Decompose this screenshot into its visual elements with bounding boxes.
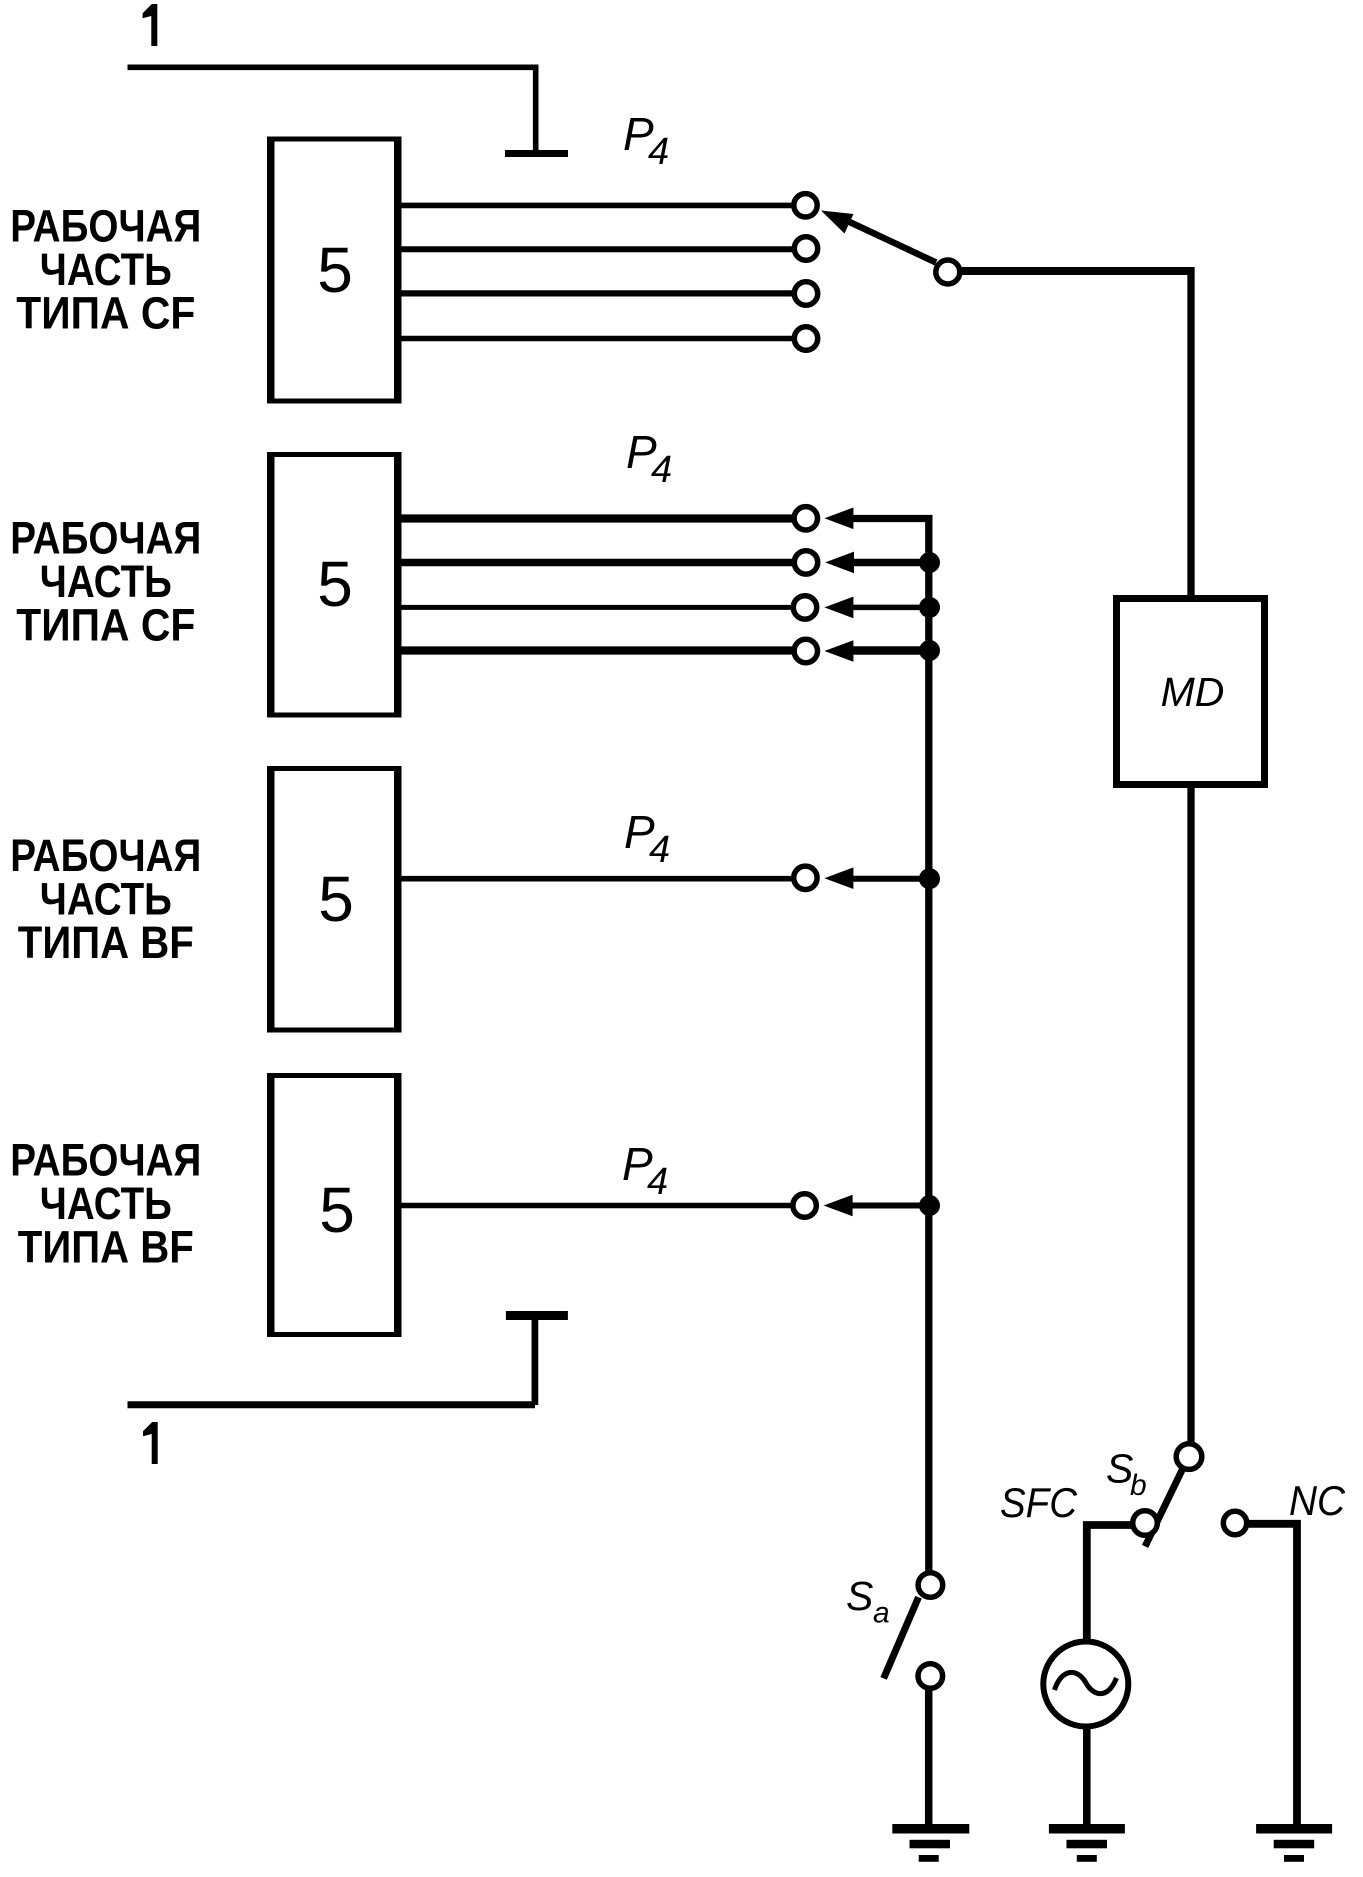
svg-text:ТИПА CF: ТИПА CF [16,600,195,651]
svg-text:5: 5 [317,548,353,620]
svg-text:5: 5 [318,863,354,935]
svg-text:4: 4 [649,829,670,871]
svg-text:4: 4 [647,1161,668,1203]
svg-text:5: 5 [319,1174,355,1246]
svg-text:b: b [1130,1469,1147,1502]
svg-text:5: 5 [317,234,353,306]
svg-text:4: 4 [648,131,669,173]
svg-text:ТИПА CF: ТИПА CF [16,288,195,339]
svg-text:NC: NC [1289,1477,1346,1524]
svg-text:ТИПА BF: ТИПА BF [18,917,194,968]
svg-text:4: 4 [651,449,672,491]
svg-text:ТИПА BF: ТИПА BF [18,1222,194,1273]
svg-text:MD: MD [1161,669,1225,715]
svg-text:a: a [873,1597,890,1630]
svg-text:S: S [846,1573,873,1619]
svg-text:SFC: SFC [1000,1479,1078,1526]
